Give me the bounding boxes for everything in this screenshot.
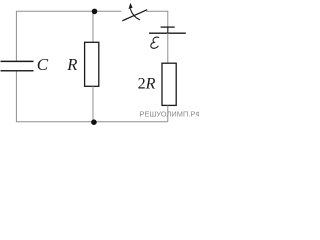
svg-text:R: R: [66, 55, 77, 74]
battery E: long (positive) plate: [149, 32, 186, 34]
svg-text:C: C: [37, 55, 49, 74]
resistor R body: [85, 42, 99, 86]
wire: battery to resistor 2R: [167, 33, 169, 63]
battery E: connector between plates: [167, 26, 169, 33]
capacitor C: bottom plate: [1, 70, 34, 72]
switch K blade: [122, 10, 147, 21]
junction dot bottom: [91, 119, 97, 125]
wire: switch right contact to battery top: [146, 11, 168, 26]
svg-text:2R: 2R: [138, 76, 156, 93]
wire: resistor 2R to bottom rail: [167, 105, 169, 121]
wire: bottom rail: [16, 121, 167, 123]
wire: middle branch bottom (resistor R to bottom rail): [92, 86, 94, 121]
junction dot top: [92, 9, 98, 15]
label EMF epsilon (script E): [151, 37, 159, 48]
svg-text:РЕШУОЛИМП.РФ: РЕШУОЛИМП.РФ: [140, 110, 200, 119]
switch K closing arrow head: [129, 3, 133, 9]
wire: left rail below capacitor: [15, 72, 17, 123]
battery E: short (negative) plate: [161, 26, 175, 28]
resistor 2R body: [162, 63, 176, 105]
wire: middle branch top (junction to resistor R): [92, 11, 94, 42]
wire: top rail from left corner to switch left contact: [16, 11, 121, 61]
switch K closing arrow shaft: [130, 9, 140, 20]
capacitor C: top plate: [1, 60, 34, 62]
